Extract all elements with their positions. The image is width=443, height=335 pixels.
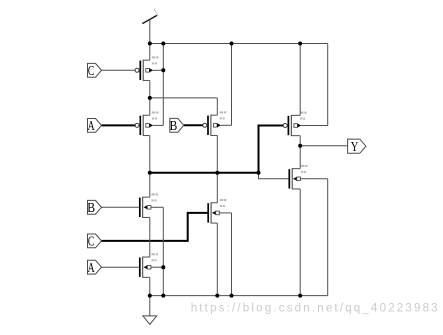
- junction bulk bus/M1 bulk: [161, 68, 165, 72]
- wire M5 gate jog: [259, 173, 289, 179]
- nmos M7 (gate C, middle): [208, 199, 231, 224]
- wire M1 source to vdd: [149, 44, 151, 61]
- junction gnd/M8 source: [148, 294, 152, 298]
- pmos M2 (gate A): [135, 112, 163, 137]
- wire input C upper: [102, 69, 136, 71]
- junction gnd/M7 source: [215, 294, 219, 298]
- junction node1: [148, 96, 152, 100]
- node net wire (gates of output stage): [150, 126, 283, 173]
- wire M5 source to gnd: [299, 189, 301, 296]
- power supply vdd symbol: [142, 9, 158, 44]
- junction node2 left: [148, 171, 152, 175]
- wire M7 bulk dropper: [231, 213, 233, 296]
- junction gnd/M7 bulk: [230, 294, 234, 298]
- nmos M8 (gate A, bottom): [140, 253, 164, 277]
- junction vdd/M3 bulk: [230, 42, 234, 46]
- wire M4 drain to output node: [299, 136, 301, 146]
- ground symbol: [143, 296, 157, 325]
- wire M3 bulk riser: [231, 44, 233, 126]
- wire M4 bulk riser: [327, 44, 329, 126]
- wire M3 source drop: [216, 98, 218, 115]
- junction gnd/M5 source: [298, 294, 302, 298]
- wire M8 source to gnd: [149, 277, 151, 295]
- svg-text:C: C: [88, 64, 94, 79]
- svg-text:A: A: [88, 261, 96, 276]
- wire input A lower: [102, 266, 140, 268]
- wire output node down to M5 drain: [299, 146, 301, 169]
- input pin B (upper): [170, 118, 184, 133]
- svg-text:A: A: [88, 119, 96, 134]
- pmos M4 (output stage): [283, 112, 328, 137]
- input pin A (upper): [88, 119, 102, 135]
- vdd rail wire: [150, 43, 328, 45]
- wire M2 source to node1: [149, 98, 151, 115]
- wire M1 drain to node1: [149, 80, 151, 97]
- wire M2 drain to node2: [149, 136, 151, 173]
- wire input A upper: [102, 124, 136, 126]
- pmos M3 (gate B): [203, 111, 232, 135]
- wire node2 to M6 drain: [149, 173, 151, 197]
- svg-text:https://blog.csdn.net/qq_40223: https://blog.csdn.net/qq_40223983: [191, 303, 440, 315]
- input pin A (lower): [88, 260, 102, 276]
- wire M3 drain to node2: [216, 135, 218, 172]
- junction gnd/bulk bus: [161, 294, 165, 298]
- svg-text:Y: Y: [351, 139, 359, 154]
- wire node1 row: [150, 97, 218, 99]
- wire input B lower: [102, 206, 140, 208]
- nmos M5 (output stage): [289, 165, 327, 190]
- junction vdd/bulk bus: [161, 42, 165, 46]
- wire M6 source to M8 drain: [149, 217, 151, 257]
- input pin C (lower): [88, 234, 102, 250]
- input pin C (upper): [88, 63, 102, 79]
- junction vdd/M4 source: [298, 42, 302, 46]
- wire M4 source to vdd: [299, 44, 301, 116]
- output pin Y: [348, 139, 366, 154]
- wire pmos bulk bus upper: [162, 44, 164, 126]
- wire input C lower: [102, 213, 208, 241]
- junction output node: [298, 144, 302, 148]
- pmos M1 (gate C, top): [135, 56, 163, 81]
- wire M7 source to gnd: [216, 223, 218, 296]
- gnd rail wire: [150, 295, 328, 297]
- nmos M6 (gate B): [140, 193, 164, 218]
- svg-text:B: B: [87, 201, 95, 216]
- wire nmos bulk bus lower: [162, 207, 164, 295]
- junction bulk bus/M8 bulk: [161, 265, 165, 269]
- junction vdd/power: [148, 42, 152, 46]
- wire M5 bulk dropper: [327, 179, 329, 296]
- wire output node to Y pin: [300, 145, 347, 147]
- svg-text:C: C: [88, 235, 94, 250]
- junction node2 mid: [215, 171, 219, 175]
- junction node2 right: [257, 171, 261, 175]
- wire input B upper: [184, 124, 203, 126]
- svg-text:B: B: [170, 119, 178, 134]
- wire M7 drain to node2: [216, 173, 218, 203]
- input pin B (lower): [87, 200, 101, 216]
